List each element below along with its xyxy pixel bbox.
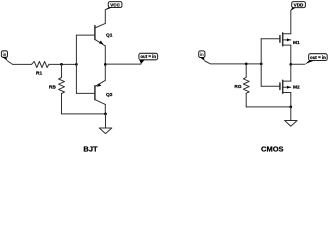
svg-text:R1: R1 — [36, 70, 42, 76]
wire M2 source down — [290, 93, 292, 107]
node ground junction (right) — [289, 106, 292, 109]
svg-text:Q2: Q2 — [106, 92, 113, 98]
svg-text:out = in: out = in — [310, 55, 326, 60]
node output junction (left) — [104, 63, 107, 66]
svg-text:CMOS: CMOS — [261, 145, 284, 153]
wire from in flag to R1 — [7, 61, 31, 65]
svg-text:Q1: Q1 — [106, 33, 113, 39]
wire RG bottom lead — [245, 93, 247, 107]
wire M1 source to M2 drain — [290, 45, 292, 81]
wire M2 gate — [261, 85, 280, 87]
ground (right) — [285, 107, 298, 126]
node output junction (right) — [289, 63, 292, 66]
transistor M1 — [280, 33, 291, 46]
node in (right input flag) — [199, 51, 205, 61]
svg-text:in: in — [200, 52, 204, 57]
svg-text:RG: RG — [234, 84, 241, 90]
svg-text:out = in: out = in — [140, 54, 156, 59]
wire bottom rail (left) — [62, 113, 106, 115]
wire Q2 base — [76, 92, 95, 94]
svg-text:BJT: BJT — [83, 145, 98, 154]
wire M1 gate — [261, 38, 280, 40]
wire gate rail vertical — [260, 39, 262, 86]
wire Q1 emitter to output node — [104, 46, 106, 81]
node out = in flag (right) — [305, 54, 327, 65]
wire M1 drain to VDD — [291, 8, 293, 34]
node VCC flag — [105, 2, 122, 10]
wire Q1 collector to VCC — [105, 8, 110, 24]
wire output to out flag (right) — [291, 63, 305, 65]
node junction RG tap — [245, 63, 248, 66]
wire from in flag to gate rail — [205, 61, 261, 64]
node VDD flag — [291, 2, 306, 11]
wire base rail vertical — [75, 35, 77, 93]
svg-text:M2: M2 — [293, 84, 300, 90]
node ground junction (left) — [104, 113, 107, 116]
node junction base rail — [75, 63, 78, 66]
resistor RG — [243, 64, 249, 93]
wire R1 to junction — [49, 63, 77, 65]
wire output to out flag — [105, 63, 141, 65]
svg-text:in: in — [3, 52, 7, 57]
node in (left input flag) — [1, 51, 7, 61]
node junction gate rail — [260, 63, 263, 66]
wire Q2 collector down — [104, 104, 106, 114]
node junction RB tap — [60, 63, 63, 66]
transistor Q2 (PNP) — [95, 80, 105, 104]
wire RB bottom lead — [61, 94, 63, 114]
transistor M2 — [280, 80, 291, 93]
svg-text:VCC: VCC — [110, 2, 120, 7]
svg-text:VDD: VDD — [294, 2, 304, 7]
transistor Q1 (NPN) — [95, 23, 105, 46]
resistor R1 — [32, 61, 49, 67]
ground (left) — [99, 114, 112, 134]
svg-text:RB: RB — [49, 85, 56, 91]
svg-text:M1: M1 — [293, 40, 300, 46]
wire bottom rail (right) — [246, 106, 291, 108]
node out = in flag (left) — [139, 53, 158, 64]
resistor RB — [59, 64, 65, 93]
wire Q1 base — [76, 34, 95, 36]
